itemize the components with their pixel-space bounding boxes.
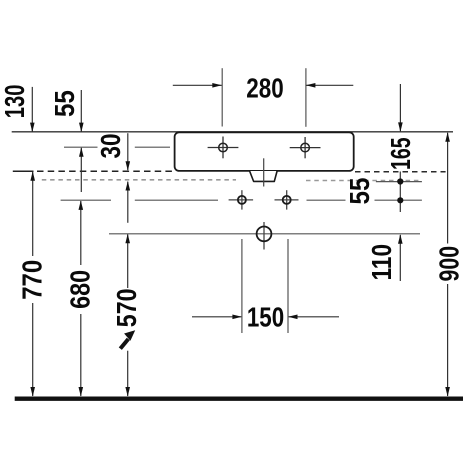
dimension 150 extension lines bbox=[241, 239, 243, 333]
wire dashed line gray right bbox=[306, 180, 422, 182]
dimension 680 line bbox=[80, 201, 82, 265]
fixing hole right bbox=[275, 190, 299, 209]
wire 165-55 column line bbox=[399, 172, 401, 213]
svg-text:900: 900 bbox=[434, 246, 465, 282]
wire drain center line bbox=[109, 233, 420, 235]
dimension 165 arrow down bbox=[399, 84, 401, 131]
svg-text:570: 570 bbox=[111, 288, 142, 327]
svg-text:150: 150 bbox=[247, 301, 284, 332]
svg-text:770: 770 bbox=[16, 260, 47, 300]
dimension 280 right arrow bbox=[306, 84, 353, 86]
wire top reference line (rim level) bbox=[12, 131, 453, 133]
dimension 280 extension lines bbox=[221, 68, 223, 126]
wire dashed line black left (basin bottom level) bbox=[13, 170, 34, 172]
svg-text:130: 130 bbox=[0, 85, 30, 119]
node dot 165 level bbox=[397, 178, 403, 184]
floor line bbox=[15, 397, 463, 401]
fixing hole left bbox=[229, 190, 254, 209]
dimension 110 arrow up bbox=[399, 235, 401, 281]
wire dashed line black right bbox=[355, 171, 446, 173]
wire drain vertical center line bbox=[263, 158, 265, 186]
adjustment arrow diagonal bbox=[120, 339, 128, 349]
wire siphon level line right bbox=[376, 181, 422, 183]
svg-text:280: 280 bbox=[246, 72, 283, 103]
dimension 900 line bbox=[447, 133, 449, 244]
overflow drain trapezoid bbox=[250, 171, 278, 181]
dimension 30 arrow down bbox=[127, 133, 129, 170]
svg-text:55: 55 bbox=[49, 90, 80, 117]
svg-text:110: 110 bbox=[366, 244, 397, 280]
svg-text:680: 680 bbox=[65, 270, 96, 309]
wire fixing holes line bbox=[61, 199, 111, 201]
tap hole left crosshair bbox=[208, 137, 239, 159]
svg-text:55: 55 bbox=[344, 178, 375, 205]
wire line L2 (55 lower bound) bbox=[64, 146, 98, 148]
dimension 280 left arrow bbox=[173, 84, 222, 86]
dimension 770 line bbox=[32, 172, 34, 256]
node dot fixing level bbox=[397, 197, 403, 203]
wire dashed line gray left bbox=[42, 179, 236, 181]
dimension 55 left arrow up bbox=[80, 148, 82, 192]
svg-text:30: 30 bbox=[95, 134, 126, 159]
dimension 150 right arrow bbox=[289, 316, 339, 318]
svg-text:165: 165 bbox=[385, 137, 416, 170]
dimension 150 left arrow bbox=[192, 316, 241, 318]
dimension 30 arrow up bbox=[127, 182, 129, 223]
dimension 130 arrow bbox=[31, 87, 33, 132]
dimension 55 left arrow down bbox=[80, 90, 82, 132]
washbasin body outline bbox=[175, 132, 354, 171]
drain hole circle bbox=[257, 222, 272, 250]
tap hole right crosshair bbox=[290, 137, 321, 158]
dimension 570 line bbox=[127, 234, 129, 288]
